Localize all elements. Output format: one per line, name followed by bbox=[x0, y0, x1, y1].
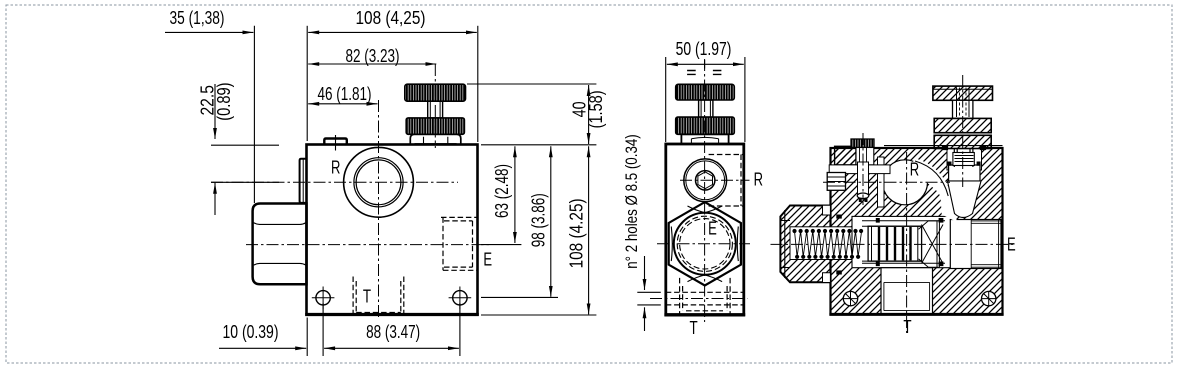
port E hidden outline bbox=[441, 217, 478, 270]
locknut facets bbox=[691, 137, 718, 144]
hex E dashed thread circle bbox=[677, 216, 732, 271]
svg-text:35 (1,38): 35 (1,38) bbox=[170, 8, 225, 28]
centerline horizontal holes bbox=[650, 298, 747, 300]
ext line E center right bbox=[481, 244, 521, 246]
spool left end lines bbox=[872, 226, 918, 261]
bore slit left of R bbox=[878, 157, 885, 207]
centerline R T vertical bbox=[906, 152, 908, 333]
tower stem white bbox=[856, 146, 874, 165]
ext line left bbox=[665, 57, 667, 142]
svg-text:n° 2 holes Ø 8.5 (0.34): n° 2 holes Ø 8.5 (0.34) bbox=[622, 134, 641, 269]
hex E chamfer arcs bbox=[671, 206, 738, 282]
spool body bbox=[868, 226, 922, 261]
port R ring bbox=[684, 159, 727, 202]
ext line R center left bbox=[211, 181, 279, 183]
svg-text:82 (3.23): 82 (3.23) bbox=[346, 46, 400, 66]
svg-text:E: E bbox=[708, 219, 717, 239]
body bottom edge thick bbox=[305, 313, 479, 316]
knob stem inner lines bbox=[701, 100, 710, 117]
svg-text:T: T bbox=[363, 287, 371, 307]
ext line body top left bbox=[211, 144, 279, 146]
dim 46 line bbox=[308, 103, 377, 105]
equal mark right bbox=[713, 71, 722, 75]
dimensions of left view bbox=[165, 26, 596, 356]
dim 50 center tick bbox=[704, 60, 706, 69]
centerline horizontal R bbox=[680, 179, 750, 181]
svg-text:E: E bbox=[1007, 235, 1016, 255]
tower knurled cap bbox=[851, 139, 874, 147]
knob top disc section bbox=[933, 86, 993, 100]
stem threads bbox=[955, 156, 974, 162]
E cavity bbox=[950, 220, 1001, 269]
ext line hole left bottom bbox=[322, 303, 324, 356]
svg-text:108 (4,25): 108 (4,25) bbox=[356, 8, 426, 28]
svg-text:88 (3.47): 88 (3.47) bbox=[366, 322, 420, 342]
mounting hole section right bbox=[982, 291, 996, 305]
top tab boss bbox=[324, 139, 347, 145]
dim 10 line bbox=[219, 347, 306, 349]
locknut section bbox=[934, 135, 991, 148]
svg-text:T: T bbox=[903, 317, 911, 337]
body top face line bbox=[884, 145, 1003, 147]
tower stem lines bbox=[860, 146, 867, 165]
E thread lines bbox=[971, 220, 1001, 269]
plug seal top bbox=[836, 215, 842, 219]
svg-text:108 (4.25): 108 (4.25) bbox=[566, 198, 586, 268]
knob top knurled disc bbox=[405, 84, 466, 101]
ext line body right top bbox=[477, 26, 479, 142]
hex E chamfer circle bbox=[674, 213, 736, 275]
centerline horizontal E bbox=[657, 243, 750, 245]
svg-text:63 (2.48): 63 (2.48) bbox=[492, 164, 512, 218]
mounting hole left crosshair bbox=[312, 287, 335, 310]
port R inner ring 2 bbox=[356, 160, 401, 205]
dim holes upper segment bbox=[644, 256, 646, 290]
seat seals bbox=[948, 162, 981, 166]
mounting hole right crosshair bbox=[449, 287, 472, 310]
plug head facets bbox=[827, 177, 845, 186]
locknut seals bbox=[942, 146, 986, 151]
bore band bbox=[852, 216, 953, 267]
spool lands bbox=[879, 227, 911, 260]
plug left face line bbox=[784, 210, 786, 278]
R passage arc bbox=[915, 161, 948, 196]
centerline vertical knob bbox=[434, 64, 436, 148]
svg-text:R: R bbox=[754, 169, 763, 189]
locknut facet lines bbox=[415, 137, 457, 145]
dim 22.5 upper segment bbox=[214, 84, 216, 139]
dim 88 line bbox=[324, 347, 459, 349]
svg-text:T: T bbox=[690, 318, 698, 338]
ext line body left top bbox=[306, 26, 308, 141]
centerline vertical R bbox=[378, 100, 380, 318]
ext line knob top right bbox=[467, 83, 596, 85]
valve body outline bbox=[307, 145, 478, 315]
svg-text:R: R bbox=[910, 160, 919, 180]
ext line hole bottom bbox=[637, 304, 661, 306]
stem in channel bbox=[954, 148, 973, 167]
port R outer circle bbox=[344, 147, 414, 217]
knob lower disc section bbox=[934, 118, 991, 132]
port R ring inner bbox=[686, 161, 725, 200]
spring top dots bbox=[792, 229, 863, 233]
pilot stem channel bbox=[858, 162, 869, 195]
dim 98 line bbox=[550, 146, 552, 296]
sleeve lines bbox=[862, 221, 945, 264]
knob hex locknut bbox=[410, 134, 461, 144]
middle body bottom edge thick bbox=[664, 313, 745, 316]
svg-text:(0.89): (0.89) bbox=[214, 82, 234, 120]
dimensions of middle view bbox=[637, 57, 745, 331]
funnel below seat bbox=[948, 181, 982, 218]
spring cavity bbox=[790, 227, 866, 260]
spring plug hatched bbox=[780, 206, 830, 283]
hex facet line upper bbox=[254, 223, 306, 225]
svg-text:50 (1.97): 50 (1.97) bbox=[676, 39, 732, 59]
body hatched block bbox=[831, 148, 1003, 314]
stem thread lines bbox=[957, 88, 970, 118]
left plug inner line bbox=[302, 160, 304, 203]
tower hex plug head bbox=[827, 173, 845, 191]
T counterbore dashed bbox=[686, 310, 723, 312]
centerline horizontal hex/E bbox=[246, 244, 491, 246]
ext line body left bottom bbox=[306, 318, 308, 357]
hex facet line lower bbox=[254, 263, 306, 265]
stem recess white bbox=[947, 146, 982, 171]
knob lower knurled disc bbox=[676, 117, 735, 134]
mounting hole left bbox=[316, 291, 330, 305]
hex E outline bbox=[669, 202, 741, 285]
centerline pilot vertical bbox=[862, 133, 864, 205]
body outline bbox=[666, 144, 744, 315]
centerline main horizontal bbox=[771, 243, 1014, 245]
hex E dashed thread circle 2 bbox=[680, 219, 730, 269]
knob lower knurled disc bbox=[406, 118, 464, 134]
hidden R passage bbox=[709, 155, 744, 207]
spring coil lines bbox=[795, 231, 862, 257]
port T hidden inner lines bbox=[356, 281, 401, 313]
top-left tower hatched bbox=[835, 146, 856, 165]
plug seal bottom bbox=[836, 270, 842, 274]
svg-text:R: R bbox=[331, 158, 340, 178]
section body bottom edge thick bbox=[829, 313, 1003, 316]
hole right crosshair bbox=[982, 291, 996, 305]
dim 108 right line bbox=[588, 146, 590, 314]
dim 40 line bbox=[588, 85, 590, 144]
top tab center tick bbox=[335, 135, 337, 151]
hex fitting on left bbox=[253, 204, 307, 285]
mounting holes hidden lines bbox=[666, 292, 744, 305]
dim 82 line bbox=[308, 63, 436, 65]
centerline R horizontal bbox=[823, 181, 950, 183]
stem adjuster nut bbox=[953, 153, 974, 166]
ext line hole top bbox=[637, 291, 661, 293]
T cavity bbox=[881, 268, 933, 315]
equal mark left bbox=[687, 71, 696, 75]
pilot seat bits bbox=[859, 198, 868, 202]
tower white band bbox=[829, 165, 890, 174]
poppet cone bbox=[919, 221, 944, 267]
dim 35 line bbox=[165, 31, 253, 33]
plug step notch bottom bbox=[823, 273, 831, 283]
knob stem bbox=[699, 100, 713, 117]
ext line right bbox=[744, 57, 746, 142]
ext line body bottom right bbox=[481, 314, 596, 316]
R passage white connector bbox=[914, 164, 952, 214]
R bore circle bbox=[883, 160, 928, 205]
T thread lines bbox=[884, 282, 930, 310]
svg-text:(1.58): (1.58) bbox=[586, 90, 606, 128]
ext line body top right bbox=[481, 144, 596, 146]
centerline horizontal R bbox=[211, 181, 458, 183]
pilot ball bbox=[857, 193, 869, 199]
left plug protrusion bbox=[300, 159, 307, 203]
port E hidden inner lines bbox=[444, 221, 473, 267]
svg-text:46 (1.81): 46 (1.81) bbox=[318, 84, 372, 104]
ext line holes center right bbox=[481, 296, 558, 298]
knob top knurled disc bbox=[676, 84, 735, 100]
knob top disc face line bbox=[933, 88, 993, 90]
dim holes lower segment bbox=[644, 307, 646, 331]
dim 50 line bbox=[667, 63, 744, 65]
seat block bbox=[949, 165, 980, 181]
port T hidden outline bbox=[353, 277, 404, 315]
centerline vertical bbox=[704, 59, 706, 322]
port R small circle bbox=[696, 171, 715, 190]
spring bottom dots bbox=[795, 255, 860, 259]
dim 22.5 lower segment bbox=[214, 183, 216, 215]
plug facet lines bbox=[780, 221, 790, 268]
svg-text:98 (3.86): 98 (3.86) bbox=[528, 193, 548, 247]
knob hex locknut bbox=[681, 134, 728, 144]
plug step notch top bbox=[823, 205, 831, 215]
port T hidden lines bbox=[680, 278, 731, 314]
mounting hole section left bbox=[843, 291, 857, 305]
knob stem section bbox=[953, 100, 973, 118]
knob stem inner lines bbox=[430, 101, 440, 118]
port R inner ring bbox=[354, 158, 403, 207]
dim 63 line bbox=[514, 146, 516, 243]
mounting hole right bbox=[453, 291, 467, 305]
svg-text:E: E bbox=[483, 249, 492, 269]
knob stem bbox=[428, 101, 443, 118]
centerline stem vertical bbox=[962, 75, 964, 187]
ext line hole right bottom bbox=[459, 303, 461, 356]
hole left crosshair bbox=[843, 291, 857, 305]
port R hex socket bbox=[698, 172, 713, 189]
sleeve seals bbox=[876, 218, 944, 266]
dim 35 ext line bbox=[253, 26, 255, 203]
svg-text:10 (0.39): 10 (0.39) bbox=[223, 322, 279, 342]
dim 108 top line bbox=[308, 31, 477, 33]
stem thread dashed bbox=[960, 88, 967, 118]
